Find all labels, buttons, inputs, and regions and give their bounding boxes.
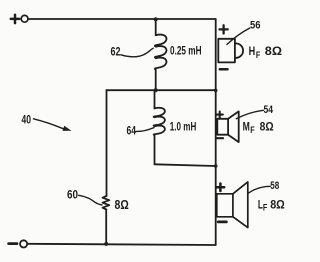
wire left mid rail upper: [106, 90, 108, 196]
wire middle-loop bottom horizontal: [155, 164, 216, 166]
svg-text:8Ω: 8Ω: [260, 120, 274, 134]
svg-text:54: 54: [264, 104, 274, 116]
junction node mid-bottom wire/rail: [214, 164, 218, 168]
svg-text:F: F: [250, 125, 255, 135]
speaker MF plus mark: [217, 112, 223, 118]
junction node 62/middle wire: [154, 88, 158, 92]
leader line 54: [236, 110, 263, 118]
inductor 62 0.25 mH: [155, 35, 167, 70]
leader line 64: [136, 128, 154, 132]
svg-text:8Ω: 8Ω: [115, 197, 129, 212]
terminal circle bottom: [20, 240, 27, 247]
leader line 60: [79, 195, 102, 205]
wire inductor 62 bottom stub: [155, 70, 157, 91]
svg-text:F: F: [263, 202, 268, 212]
speaker HF 56 box: [218, 39, 235, 63]
svg-text:8Ω: 8Ω: [270, 198, 285, 212]
speaker LF cone: [233, 182, 248, 228]
terminal - (input negative): [9, 242, 17, 245]
wire inductor 62 top stub: [155, 19, 157, 35]
arrow 40 head: [63, 126, 72, 131]
arrow 40: [34, 119, 65, 130]
svg-text:0.25 mH: 0.25 mH: [170, 44, 202, 58]
wire top horizontal: [28, 18, 215, 20]
wire middle horizontal: [107, 89, 216, 91]
leader line 58: [249, 186, 270, 193]
terminal circle top: [21, 15, 28, 22]
speaker HF minus mark: [220, 68, 228, 71]
svg-text:H: H: [249, 44, 256, 58]
wire left mid rail lower: [105, 210, 107, 244]
speaker MF 54 box: [217, 119, 228, 135]
speaker HF dome: [235, 43, 243, 58]
junction node resistor/bottom wire: [104, 242, 108, 246]
junction node top of 62: [154, 17, 158, 21]
inductor 64 1.0 mH: [154, 108, 165, 135]
svg-text:64: 64: [127, 126, 137, 138]
svg-text:56: 56: [250, 19, 261, 31]
wire inductor 64 bottom stub: [154, 135, 156, 164]
speaker LF plus mark: [217, 184, 225, 192]
speaker HF plus mark: [220, 25, 228, 33]
svg-text:8Ω: 8Ω: [265, 44, 283, 58]
speaker LF minus mark: [218, 221, 226, 224]
resistor 60 zigzag: [103, 196, 110, 210]
svg-text:62: 62: [111, 46, 121, 58]
wire bottom horizontal: [28, 244, 216, 245]
junction node middle wire/rail: [214, 89, 218, 93]
svg-text:1.0 mH: 1.0 mH: [170, 119, 197, 133]
svg-text:40: 40: [22, 115, 32, 127]
leader line 62: [121, 48, 153, 57]
svg-text:F: F: [256, 50, 261, 60]
svg-text:58: 58: [270, 180, 279, 192]
svg-text:60: 60: [67, 189, 78, 201]
wire right rail: [215, 19, 217, 245]
speaker MF minus mark: [217, 137, 223, 139]
svg-text:M: M: [243, 120, 250, 134]
wire inductor 64 top stub: [154, 90, 156, 108]
terminal + (input positive): [11, 15, 19, 23]
speaker LF 58 box: [217, 194, 233, 217]
leader line 56: [227, 28, 250, 44]
speaker MF cone: [228, 111, 239, 142]
